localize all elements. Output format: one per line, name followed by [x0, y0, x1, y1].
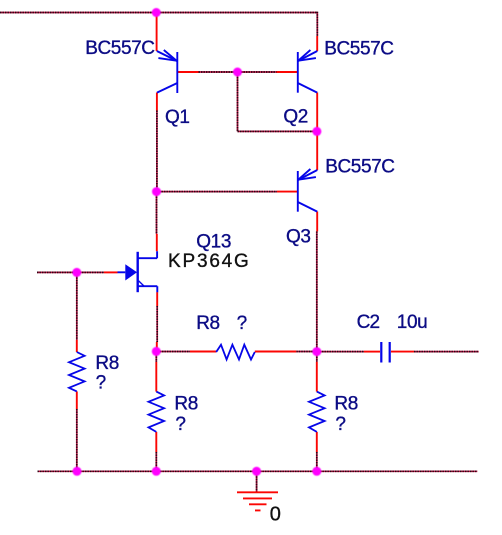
svg-text:R8: R8	[95, 353, 119, 374]
node ground rail / R8 left junction	[73, 467, 82, 476]
svg-text:?: ?	[175, 414, 186, 435]
node VCC / Q1 emitter junction	[152, 8, 161, 17]
pin R8 horizontal right lead	[255, 351, 296, 353]
node Q2 collector-base tie junction	[312, 127, 321, 136]
pin R8 horizontal left lead	[190, 351, 216, 353]
pin C2 left lead	[364, 351, 380, 353]
pin Q1 emitter lead	[156, 13, 158, 52]
pin Q2 emitter lead	[316, 36, 318, 51]
transistor Q13 (JFET KP364G)	[118, 251, 158, 292]
wire node down to Q13 drain	[156, 192, 158, 234]
pin R8 middle bottom lead	[155, 432, 157, 452]
wire R8 middle to bottom rail	[155, 452, 157, 471]
wire R8 horizontal to output node	[296, 351, 317, 353]
svg-text:Q13: Q13	[196, 231, 231, 252]
svg-text:BC557C: BC557C	[85, 38, 154, 59]
svg-text:C2: C2	[357, 312, 380, 333]
svg-text:R8: R8	[196, 313, 220, 334]
wire ground bottom rail	[38, 470, 478, 472]
svg-text:?: ?	[335, 414, 346, 435]
node ground rail / R8 middle junction	[152, 467, 161, 476]
node ground rail / ground symbol junction	[252, 467, 261, 476]
resistor R8 (left vertical, input bias)	[69, 352, 85, 391]
wire source node to R8 middle	[155, 352, 157, 363]
node ground rail / R8 right junction	[312, 467, 321, 476]
wire output node to R8 right	[316, 352, 318, 362]
wire source node to R8 horizontal	[157, 351, 190, 353]
pin Q3 collector lead	[316, 212, 318, 232]
svg-text:BC557C: BC557C	[324, 38, 393, 59]
pin Q1 base lead	[178, 71, 199, 73]
pin Q1 collector lead	[156, 93, 158, 111]
svg-text:R8: R8	[334, 394, 358, 415]
transistor Q3 (PNP BC557C, mirrored)	[298, 169, 318, 212]
node Q1-Q2 base junction	[233, 68, 242, 77]
svg-text:BC557C: BC557C	[325, 156, 394, 177]
pin R8 left top lead	[76, 340, 78, 352]
wire mirror tie to Q2 collector node	[238, 130, 317, 132]
wire output node to C2	[317, 351, 364, 353]
pin R8 left bottom lead	[76, 391, 78, 409]
resistor R8 (horizontal, Q13 source to output)	[216, 345, 255, 360]
svg-text:?: ?	[237, 313, 248, 334]
svg-text:?: ?	[96, 373, 107, 394]
svg-text:10u: 10u	[397, 312, 428, 333]
pin R8 middle top lead	[155, 362, 157, 392]
node output: Q3 collector / R8 / C2 junction	[312, 347, 321, 356]
wire VCC top rail	[0, 12, 317, 14]
pin Q3 base lead	[277, 191, 297, 193]
wire R8 right to bottom rail	[316, 452, 318, 471]
wire R8 left to bottom rail	[76, 409, 78, 471]
wire C2 to right edge	[414, 351, 479, 353]
svg-text:KP364G: KP364G	[168, 251, 251, 272]
pin Q2 base lead	[277, 71, 298, 73]
transistor Q2 (PNP BC557C, mirrored)	[298, 50, 318, 93]
wire Q1 collector down	[156, 111, 158, 192]
transistor Q1 (PNP BC557C, body bar)	[157, 50, 178, 93]
wire Q1 base to Q2 base	[199, 71, 277, 73]
svg-text:Q3: Q3	[286, 226, 311, 247]
svg-text:R8: R8	[174, 394, 198, 415]
wire Q13 source down	[156, 306, 158, 342]
node Q13 source / R8 junction	[152, 347, 161, 356]
wire input to Q13 gate	[37, 271, 104, 273]
wire base node down (mirror tie)	[237, 72, 239, 131]
wire bottom rail to ground symbol	[256, 471, 258, 491]
resistor R8 (middle vertical, source load)	[149, 392, 165, 432]
node input / R8 left junction	[72, 268, 81, 277]
pin R8 right bottom lead	[316, 432, 318, 452]
svg-text:Q2: Q2	[283, 107, 308, 128]
pin Q13 drain lead	[156, 234, 158, 251]
pin R8 right top lead	[316, 362, 318, 392]
wire node to Q3 base	[157, 191, 278, 193]
resistor R8 (right vertical, output load)	[309, 392, 325, 432]
wire Q3 collector down to output node	[316, 231, 318, 351]
node A: Q1 collector / Q3 base / Q13 drain	[152, 187, 161, 196]
pin Q2 collector / Q3 emitter lead	[316, 93, 318, 171]
wire input node down to R8 left	[76, 272, 78, 340]
pin Q13 source lead	[156, 292, 158, 306]
svg-text:Q1: Q1	[165, 107, 190, 128]
pin C2 right lead	[391, 351, 414, 353]
pin R8 middle top lead upper	[156, 342, 158, 352]
ground symbol	[237, 492, 278, 510]
wire top rail corner down to Q2 emitter	[316, 12, 318, 36]
capacitor C2 (plates)	[381, 342, 389, 363]
svg-text:0: 0	[270, 504, 281, 526]
pin Q13 gate lead	[104, 271, 118, 273]
